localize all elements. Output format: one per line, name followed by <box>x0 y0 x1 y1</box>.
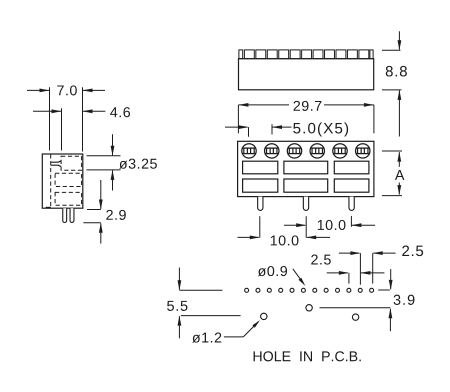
front view screw clamp 4 <box>310 144 324 158</box>
dim 2.5 left arrow tail <box>327 272 348 274</box>
dim 2.5 left right-arrow tail <box>361 272 384 274</box>
side view body outline <box>42 154 83 208</box>
dim 29.7 extension line left <box>237 105 239 133</box>
dim A upper arrow <box>397 152 401 162</box>
dim 7.0 arrow left <box>40 89 50 93</box>
dim 2.5 left tick <box>348 273 350 284</box>
dim 5.5 lower reference line <box>181 315 241 317</box>
dim 4.6 dimension line left tail <box>33 110 61 112</box>
dim 10.0 rear label <box>318 220 346 230</box>
dim 8.8 lower arrow tail <box>398 90 400 136</box>
front view pin 2 <box>303 197 308 211</box>
dim 3.25 label <box>119 159 157 169</box>
side view clamp funnel upper line <box>51 161 61 162</box>
dim 5.0 pitch right arrow <box>272 125 282 129</box>
dim A label <box>395 170 404 180</box>
dim 2.9 lower arrow <box>99 223 103 233</box>
dim 2.5 shared tick <box>359 253 361 285</box>
dim 8.8 label <box>386 66 407 77</box>
dim 3.25 upper extension line <box>87 155 121 157</box>
dim 3.9 label <box>394 295 415 305</box>
dim 5.0 pitch tick screw2 <box>271 124 273 134</box>
dim 7.0 extension line right <box>82 87 84 151</box>
dim A upper arrow tail <box>398 152 400 167</box>
dim 7.0 dimension line right tail <box>83 89 105 91</box>
dim 29.7 label <box>294 101 322 111</box>
dim 4.6 dimension line right tail <box>83 110 105 112</box>
dim 3.9 upper reference line <box>378 289 390 291</box>
dim 10.0 rear tick pin3 <box>350 216 352 227</box>
dim 5.5 upper arrow tail <box>178 268 180 290</box>
top view body outline <box>239 59 374 90</box>
leader arrow for ø0.9 <box>299 278 306 286</box>
side view wire-entry hole dashed box <box>61 156 82 170</box>
dim 2.5 right right-arrow <box>373 251 383 255</box>
front view screw clamp 6 <box>356 144 370 158</box>
pcb big hole right (ø1.2) <box>352 314 358 320</box>
dim 10.0 rear tick pin2 <box>305 216 307 238</box>
dim 2.9 lower arrow tail <box>100 223 102 243</box>
dim 2.5 right arrow tail <box>339 252 360 254</box>
dim 3.9 upper arrow tail <box>390 269 392 289</box>
dim 3.25 lower extension line <box>87 169 121 171</box>
dim 2.5 right right-arrow tail <box>373 252 395 254</box>
dim 7.0 extension line left <box>49 87 51 150</box>
dim 2.9 lower reference tick <box>83 222 100 224</box>
dim A lower arrow <box>397 185 401 195</box>
front view screw clamp 5 <box>333 144 347 158</box>
dim 7.0 label <box>57 85 77 95</box>
dim 3.25 lower arrow <box>111 170 115 180</box>
leader arrow for ø1.2 <box>252 320 260 328</box>
front view pin 1 <box>258 197 263 211</box>
leader line for ø1.2 horizontal <box>224 336 243 338</box>
front view cell row2 right <box>334 179 369 192</box>
dim 2.5 left arrow <box>339 271 349 275</box>
front view cell row1 middle <box>284 161 328 174</box>
dim 7.0 arrow right <box>83 89 93 93</box>
dim 8.8 lower extension line <box>382 89 401 91</box>
front view cell row2 left <box>243 179 278 192</box>
dim 5.5 lower arrow <box>178 316 182 326</box>
caption HOLE IN P.C.B. <box>254 351 361 361</box>
dim 5.5 upper arrow <box>178 280 182 290</box>
dim 29.7 dimension line right segment <box>324 104 374 106</box>
top view comb teeth row <box>239 50 243 59</box>
dim 7.0 dimension line left tail <box>27 89 49 91</box>
dim 8.8 lower arrow <box>398 90 402 100</box>
dim 3.25 upper arrow <box>111 146 115 156</box>
dim 3.25 lower arrow tail <box>112 170 114 190</box>
dim 3.25 upper arrow tail <box>112 134 114 155</box>
dim 5.5 upper reference line <box>179 289 222 291</box>
dim 4.6 label <box>110 107 130 117</box>
side view middle cavity dashed box <box>55 173 82 186</box>
dim 10.0 rear arrow-right tail <box>352 224 375 226</box>
dim 2.9 upper arrow tail <box>100 180 102 209</box>
leader line for ø0.9 <box>293 269 304 284</box>
dim 2.5 right tick <box>372 253 374 284</box>
front view pin 3 <box>349 197 354 211</box>
side view bottom-left solid mark <box>46 207 51 209</box>
front view cell row2 middle <box>284 179 328 192</box>
dim 4.6 arrow left <box>52 109 62 113</box>
dim 10.0 front label <box>271 235 299 245</box>
dim 3.9 upper arrow <box>389 280 393 290</box>
dim 5.0 pitch left arrow tail <box>225 126 248 128</box>
front view screw clamp 3 <box>287 144 301 158</box>
pcb big hole left (ø1.2) <box>261 313 267 319</box>
side view internal dashed partition line <box>50 154 52 208</box>
dim 2.5 left label <box>311 255 331 265</box>
side view clamp funnel lower line <box>51 165 61 166</box>
dim 10.0 rear arrow left <box>296 223 306 227</box>
dim 5.0 pitch left arrow <box>239 125 249 129</box>
side view lower cavity dashed box <box>55 192 82 205</box>
dim 2.9 label <box>106 210 125 220</box>
dim 29.7 arrow right <box>364 103 374 107</box>
dim 3.9 lower arrow <box>389 308 393 318</box>
dim 5.5 label <box>167 301 187 311</box>
dim 8.8 upper extension line <box>382 49 400 51</box>
front view cell row1 left <box>243 161 278 174</box>
side view rear solder pin <box>63 208 67 222</box>
front view screw clamp 1 <box>242 144 256 158</box>
dim 5.0 pitch right arrow tail <box>273 126 292 128</box>
dim 10.0 rear arrow right <box>351 223 361 227</box>
dim 10.0 front arrow left <box>250 236 260 240</box>
dim 8.8 upper arrow <box>398 40 402 50</box>
dim 4.6 arrow right <box>83 109 93 113</box>
dim 2.5 right arrow <box>350 251 360 255</box>
dim 10.0 front arrow-right tail <box>307 236 330 238</box>
label ø0.9 <box>258 266 287 276</box>
dim 2.9 upper arrow <box>99 200 103 210</box>
pcb middle-hole reference line <box>320 307 391 309</box>
dim 29.7 dimension line left segment <box>238 104 289 106</box>
dim 10.0 front arrow right <box>306 236 316 240</box>
dim 5.0 pitch tick screw1 <box>248 127 250 137</box>
dim 10.0 front arrow-left tail <box>238 236 259 238</box>
dim 29.7 extension line right <box>373 105 375 133</box>
dim 5.5 lower arrow tail <box>178 316 180 338</box>
label ø1.2 <box>192 333 221 343</box>
dim A upper extension line <box>382 150 402 152</box>
dim 2.5 right label <box>402 246 423 257</box>
dim 29.7 arrow left <box>238 103 248 107</box>
leader line for ø1.2 diagonal <box>243 322 258 337</box>
dim A lower extension line <box>382 195 402 197</box>
pcb small holes row (12x ø0.9) <box>245 288 249 292</box>
dim 8.8 upper arrow tail <box>398 31 400 49</box>
front view screw clamp 2 <box>265 144 279 158</box>
dim A lower arrow tail <box>398 183 400 195</box>
dim 2.5 left right-arrow <box>360 271 370 275</box>
dim 10.0 rear arrow-left tail <box>284 224 305 226</box>
dim 5.0(X5) label <box>293 122 348 136</box>
dim 2.9 upper reference tick <box>87 209 101 211</box>
front view body outline <box>238 141 374 196</box>
side view front solder pin <box>70 208 74 222</box>
pcb big hole middle (ø1.2) <box>306 305 312 311</box>
front view cell row1 right <box>334 161 369 174</box>
dim 3.9 lower arrow tail <box>389 309 391 331</box>
dim 4.6 extension line <box>61 108 63 150</box>
dim 10.0 front tick pin1 <box>259 216 261 238</box>
